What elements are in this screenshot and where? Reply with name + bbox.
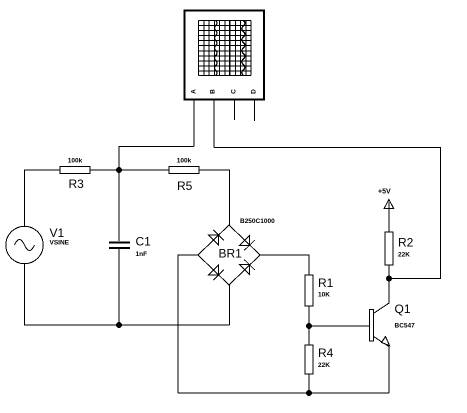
wire: base node to R4 — [308, 326, 310, 345]
svg-text:C: C — [231, 89, 238, 94]
wire: R1 bottom to base node — [308, 306, 310, 326]
pin D — [254, 100, 256, 121]
svg-text:C1: C1 — [136, 235, 152, 249]
oscilloscope body — [185, 11, 265, 100]
wire: scope pin B to right rail — [214, 148, 441, 279]
svg-text:B: B — [210, 89, 217, 94]
node: R1/R4/base junction — [306, 323, 312, 329]
svg-text:Q1: Q1 — [395, 302, 411, 316]
wire: bridge bottom to bottom rail — [229, 285, 231, 325]
V1 sine symbol — [15, 240, 35, 251]
wire: base node to Q1 base — [309, 325, 370, 327]
wire: R5 to bridge top — [199, 170, 230, 225]
svg-text:22K: 22K — [398, 252, 410, 259]
svg-text:A: A — [191, 89, 198, 94]
diode upper-right (anode top corner, cathode right corner) — [239, 235, 255, 250]
pin A — [193, 100, 195, 147]
wire: bridge left corner down to ground rail — [178, 255, 198, 393]
resistor R3 — [60, 167, 90, 174]
bridge rectifier BR1 diamond — [198, 225, 260, 285]
wire: C1 to bottom rail — [118, 249, 120, 325]
Q1 emitter arrowhead — [382, 337, 390, 346]
voltage source V1 — [6, 226, 43, 263]
pin C — [234, 100, 236, 120]
ground rail wire — [178, 392, 389, 394]
svg-text:BR1: BR1 — [219, 247, 243, 261]
pin B — [213, 100, 215, 148]
wire: R3 to node — [90, 169, 119, 171]
transistor Q1 base bar — [370, 310, 374, 342]
wire: scope pin A to node — [119, 147, 194, 171]
svg-text:BC547: BC547 — [395, 323, 416, 330]
node: R3/R5/C1 junction — [116, 167, 122, 173]
wire: V1 bottom to bottom rail — [25, 264, 230, 325]
resistor R2 — [385, 232, 393, 265]
svg-text:R2: R2 — [398, 236, 414, 250]
wire: node to R5 — [119, 169, 169, 171]
svg-text:22K: 22K — [318, 362, 330, 369]
svg-text:10K: 10K — [318, 292, 330, 299]
scope trace C (flat vertical line) — [229, 21, 231, 76]
svg-text:100k: 100k — [177, 158, 192, 165]
node: R4/ground rail junction — [306, 390, 312, 396]
svg-text:100k: 100k — [68, 158, 83, 165]
scope trace A (sine) — [215, 21, 218, 76]
svg-text:D: D — [251, 89, 258, 94]
svg-text:R5: R5 — [177, 179, 193, 193]
power +5V arrow symbol — [384, 200, 394, 210]
Q1 emitter lead — [374, 337, 390, 394]
node: C1 bottom junction — [116, 322, 122, 328]
svg-text:R4: R4 — [318, 346, 334, 360]
svg-text:B250C1000: B250C1000 — [240, 218, 275, 225]
svg-text:V1: V1 — [50, 226, 65, 240]
wire: V1 top to R3 — [25, 170, 61, 226]
Q1 collector lead — [374, 279, 390, 314]
diode upper-left (anode left corner, cathode top corner) — [208, 230, 224, 245]
capacitor C1 — [109, 242, 130, 248]
svg-text:+5V: +5V — [378, 189, 391, 196]
wire: +5V to R2 — [388, 209, 390, 232]
wire: bridge right corner to R1 — [260, 255, 309, 275]
svg-text:1nF: 1nF — [136, 251, 148, 258]
svg-text:VSINE: VSINE — [50, 240, 70, 247]
svg-text:R1: R1 — [318, 276, 334, 290]
diode lower-right (anode bottom corner, cathode right corner) — [239, 260, 255, 275]
resistor R4 — [305, 345, 313, 374]
scope trace B (sine) — [242, 21, 245, 76]
wire: node to C1 — [118, 170, 120, 241]
resistor R1 — [305, 275, 313, 306]
diode lower-left (anode left corner, cathode bottom corner) — [208, 265, 224, 280]
wire: R4 bottom to ground rail — [308, 374, 310, 393]
svg-text:R3: R3 — [69, 177, 85, 191]
node: collector junction — [386, 276, 392, 282]
resistor R5 — [169, 167, 199, 174]
oscilloscope graticule grid — [199, 21, 252, 76]
wire: R2 bottom to collector node — [388, 265, 390, 279]
